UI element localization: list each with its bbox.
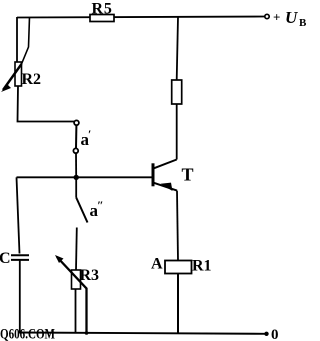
wire a' to junction <box>75 153 77 177</box>
svg-text:C: C <box>0 250 11 267</box>
wire bottom rail <box>19 333 265 334</box>
svg-text:R2: R2 <box>22 71 42 88</box>
svg-text:″: ″ <box>97 198 104 212</box>
wire base <box>17 176 153 178</box>
svg-text:R5: R5 <box>92 1 113 18</box>
svg-text:R3: R3 <box>80 267 100 284</box>
contact a' lower circle <box>73 148 78 153</box>
switch a'' blade <box>76 198 87 223</box>
wire resistor to collector <box>176 104 178 160</box>
capacitor C <box>11 254 29 256</box>
wire R3 to bottom rail <box>75 289 77 333</box>
terminal 0 <box>264 332 268 336</box>
resistor R4 unlabeled <box>172 80 182 104</box>
wiper arrow R3 <box>57 257 87 333</box>
node junction <box>74 175 79 180</box>
transistor T collector lead <box>154 160 177 169</box>
terminal +UB <box>265 14 269 18</box>
wire a'' to R3 <box>75 228 78 271</box>
wire left drop <box>16 17 18 62</box>
wire R2 to contact a' <box>18 86 75 122</box>
transistor T emitter lead <box>154 183 177 191</box>
svg-text:T: T <box>182 165 194 185</box>
svg-text:′: ′ <box>88 127 91 141</box>
wire C to bottom rail <box>19 260 21 333</box>
wiper arrow R2 <box>22 17 30 64</box>
resistor R5 <box>90 15 114 22</box>
wire left vertical to C <box>17 177 20 253</box>
switch a'' stub <box>75 179 77 198</box>
relay coil R1 <box>165 261 192 274</box>
node R3 wiper on rail <box>85 331 89 335</box>
wire top rail <box>17 17 265 18</box>
rheostat R3 <box>72 270 81 289</box>
transistor T emitter arrow (PNP) <box>161 183 173 191</box>
wire collector drop from rail <box>177 17 178 80</box>
transistor T base bar <box>152 163 155 186</box>
svg-text:+: + <box>273 10 280 25</box>
contact a' link <box>75 125 77 148</box>
rheostat R2 <box>15 62 22 86</box>
svg-text:0: 0 <box>271 327 279 341</box>
svg-text:B: B <box>299 17 307 29</box>
svg-text:A: A <box>151 256 163 273</box>
wire relay to bottom rail <box>177 274 179 334</box>
svg-text:U: U <box>285 8 298 27</box>
wire emitter to relay <box>177 191 178 261</box>
svg-text:Q606.COM: Q606.COM <box>0 327 55 341</box>
svg-text:R1: R1 <box>192 258 212 275</box>
contact a' upper circle <box>74 120 79 125</box>
